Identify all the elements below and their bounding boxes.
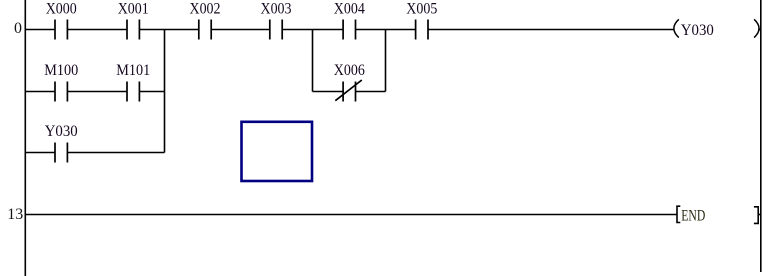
svg-text:Y030: Y030	[681, 22, 714, 39]
wire X006 branch right vertical	[385, 30, 387, 92]
wire rung1 X002 to X003	[211, 29, 270, 31]
contact X006 bars (NC)	[342, 82, 344, 102]
wire rung1 X004 to X005	[356, 29, 416, 31]
svg-text:X001: X001	[118, 1, 149, 18]
wire rung1 rail to X000	[25, 29, 55, 31]
svg-text:X000: X000	[46, 1, 77, 18]
wire coil to right rail	[758, 29, 761, 31]
instruction END left bracket	[677, 206, 680, 222]
wire rung2 M100 to M101	[67, 91, 127, 93]
contact X001 bars	[126, 20, 128, 40]
svg-text:X004: X004	[334, 1, 365, 18]
wire rung1 X005 to coil Y030	[428, 29, 675, 31]
wire rung1 X000 to X001	[67, 29, 127, 31]
wire rung2 rail to M100	[25, 91, 55, 93]
contact M101 bars	[126, 82, 128, 102]
wire X006 to branch right	[356, 91, 386, 93]
wire rung1 X003 to X004	[282, 29, 343, 31]
contact X002 bars	[198, 20, 200, 40]
contact X004 bars	[342, 20, 344, 40]
svg-text:0: 0	[14, 20, 22, 37]
wire END to right rail	[758, 214, 761, 216]
contact X006 NC slash	[335, 80, 362, 101]
contact M100 bars	[54, 82, 56, 102]
wire rung2 M101 to junction	[139, 91, 164, 93]
svg-text:X005: X005	[406, 1, 437, 18]
wire rung3 rail to Y030 contact	[25, 152, 55, 154]
cursor cell blue selection box	[242, 122, 313, 181]
wire rung1 X001 to X002	[139, 29, 198, 31]
left power rail	[24, 0, 26, 276]
right power rail	[760, 0, 762, 272]
wire parallel junction vertical after X001	[164, 30, 166, 153]
contact X000 bars	[54, 20, 56, 40]
svg-text:M101: M101	[116, 62, 150, 79]
wire END rung	[25, 214, 677, 216]
wire branch to X006	[313, 91, 344, 93]
svg-text:13: 13	[7, 206, 23, 223]
svg-text:Y030: Y030	[45, 123, 78, 140]
svg-text:M100: M100	[44, 62, 78, 79]
svg-text:X003: X003	[261, 1, 292, 18]
svg-text:X006: X006	[334, 62, 365, 79]
contact X003 bars	[269, 20, 271, 40]
wire rung3 Y030 contact to junction	[67, 152, 164, 154]
coil Y030 right parenthesis	[754, 19, 759, 37]
wire X006 branch left vertical	[312, 30, 314, 92]
contact X005 bars	[415, 20, 417, 40]
svg-text:X002: X002	[190, 1, 221, 18]
coil Y030 left parenthesis	[674, 19, 679, 37]
svg-text:END: END	[681, 207, 705, 224]
instruction END right bracket	[754, 207, 758, 224]
contact Y030 bars	[54, 143, 56, 163]
